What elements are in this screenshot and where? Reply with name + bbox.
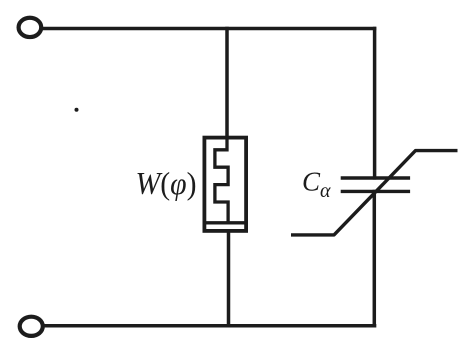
wire right branch bottom xyxy=(373,190,377,328)
svg-text:W(φ): W(φ) xyxy=(136,165,197,201)
terminal T2 (bottom-left) xyxy=(20,317,43,336)
wire right branch top xyxy=(373,27,377,180)
wire middle branch top xyxy=(225,27,229,140)
wire middle branch bottom xyxy=(227,229,231,327)
terminal T1 (top-left) xyxy=(19,18,42,37)
capacitor C-alpha (variable) xyxy=(291,151,458,235)
memristor W(phi) body xyxy=(204,138,246,231)
wire top (from T1 to right branch) xyxy=(42,27,377,31)
wire bottom (from T2 to right branch) xyxy=(43,324,376,328)
svg-text:Cα: Cα xyxy=(302,167,331,203)
stray dot mark xyxy=(75,108,79,112)
